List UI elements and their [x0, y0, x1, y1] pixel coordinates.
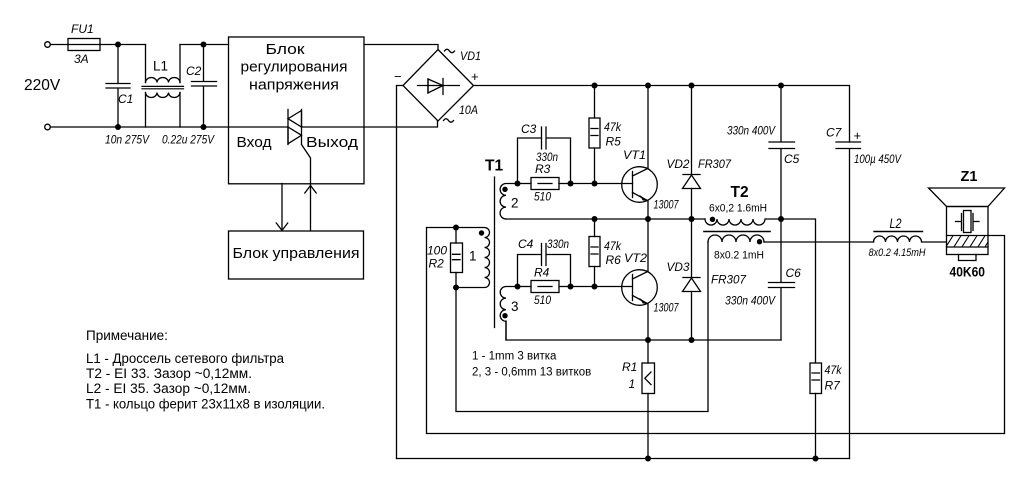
label 3A [74, 52, 89, 66]
label 330n (C4) [547, 237, 569, 251]
svg-text:Выход: Выход [306, 134, 358, 151]
svg-text:C5: C5 [784, 152, 800, 166]
resistor R2 [451, 228, 463, 288]
label VD2 [667, 157, 690, 171]
label 47k R7 [825, 363, 843, 393]
T1 core [494, 177, 496, 328]
note L1 [86, 351, 284, 366]
node C3-R3 left [515, 181, 521, 187]
speaker Z1 body [947, 207, 989, 255]
svg-text:регулирования: регулирования [241, 59, 348, 76]
note T1 [86, 397, 325, 412]
diode VD2 [683, 86, 701, 220]
label 220V [24, 77, 61, 94]
svg-text:L1 - Дроссель сетевого фильтра: L1 - Дроссель сетевого фильтра [86, 351, 284, 366]
svg-text:220V: 220V [24, 77, 61, 94]
svg-text:13007: 13007 [654, 200, 679, 212]
svg-text:8x0.2 4.15mH: 8x0.2 4.15mH [869, 247, 926, 259]
wire T2 secondary right to L2 [764, 241, 874, 243]
svg-text:C4: C4 [518, 237, 534, 251]
transistor VT2 [622, 219, 658, 340]
resistor R5 [589, 86, 600, 184]
svg-text:T2: T2 [731, 184, 749, 201]
svg-text:C1: C1 [118, 92, 133, 106]
label C3 [521, 122, 537, 136]
label R1 [622, 360, 637, 374]
svg-text:FR307: FR307 [698, 157, 732, 171]
svg-text:10n 275V: 10n 275V [105, 133, 150, 147]
node C4-R4 right [568, 284, 574, 290]
phase dot winding 1 [479, 230, 484, 235]
resistor R6 [589, 219, 600, 287]
wire bottom AC rail [50, 126, 228, 128]
node VD2 anode midpoint [689, 216, 695, 222]
svg-text:330n: 330n [547, 237, 569, 251]
label 510 (R4) [534, 293, 551, 307]
note T2 [86, 366, 252, 381]
svg-text:2: 2 [511, 196, 519, 211]
label 47k R6 [604, 239, 622, 267]
svg-text:40K60: 40K60 [950, 264, 986, 280]
svg-text:VD1: VD1 [460, 49, 481, 63]
svg-text:47k: 47k [604, 239, 622, 253]
node C1 top [115, 42, 121, 48]
label 8x0.2 1mH [714, 250, 764, 262]
label C5 [784, 152, 800, 166]
label T2 [731, 184, 749, 201]
label Z1 [961, 169, 978, 185]
svg-text:T1: T1 [485, 158, 503, 175]
label C7 [826, 126, 843, 140]
T1 winding 1 [456, 228, 490, 288]
label 10A [459, 103, 478, 117]
wire top AC L1 to block [180, 44, 229, 46]
resistor R1 [642, 340, 655, 459]
svg-text:FU1: FU1 [71, 22, 94, 36]
wire R3 to VT1 base [571, 183, 633, 185]
svg-text:VD3: VD3 [667, 260, 690, 274]
node R6 top [592, 216, 598, 222]
svg-text:R7: R7 [825, 379, 842, 393]
T2 secondary winding [708, 235, 764, 242]
svg-text:R5: R5 [606, 135, 622, 149]
resistor R7 [810, 363, 822, 459]
svg-text:L2: L2 [890, 216, 902, 231]
node R5 top [592, 83, 598, 89]
terminal tab of Z1 [959, 255, 977, 261]
svg-text:510: 510 [534, 190, 551, 204]
capacitor C4 branch [518, 244, 571, 287]
wire C5 bottom to R7 top [781, 219, 816, 363]
svg-text:330n 400V: 330n 400V [725, 294, 776, 308]
label FU1 [71, 22, 94, 36]
label 330n (C3) [536, 150, 558, 164]
label VT2 [624, 251, 647, 265]
svg-text:R6: R6 [606, 253, 622, 267]
svg-text:Z1: Z1 [961, 169, 978, 185]
capacitor C2 [192, 45, 217, 128]
svg-text:напряжения: напряжения [249, 77, 339, 94]
label 0.22u 275V [162, 133, 215, 147]
svg-text:C6: C6 [786, 266, 802, 280]
label 1 (winding) [469, 249, 477, 264]
phase dot T2 secondary [757, 239, 762, 244]
capacitor C7 [836, 142, 861, 459]
triac VS1 inside block [288, 110, 302, 145]
phase dot winding 2 [502, 187, 507, 192]
svg-text:3A: 3A [74, 52, 89, 66]
svg-text:10A: 10A [459, 103, 478, 117]
label 10n 275V [105, 133, 150, 147]
wire input to triac [229, 126, 289, 128]
svg-text:47k: 47k [825, 363, 843, 377]
wire T2 secondary left down to feedback loop [456, 242, 708, 412]
label C2 [186, 64, 202, 78]
label 100 R2 [427, 244, 447, 271]
label 330n 400V (C5) [727, 124, 776, 138]
label + (C7) [854, 128, 862, 143]
svg-text:Вход: Вход [237, 134, 272, 151]
label 3 [511, 299, 519, 314]
label ~ top of bridge [445, 49, 455, 53]
wire triac output to bridge AC2 [302, 121, 438, 127]
capacitor C3 branch [518, 127, 571, 184]
node winding1 top [453, 225, 459, 231]
label R4 [534, 266, 550, 280]
wire bridge minus down to negative bus [397, 86, 404, 459]
svg-text:C3: C3 [521, 122, 537, 136]
piezo element inside Z1 [956, 211, 980, 233]
svg-text:8x0.2 1mH: 8x0.2 1mH [714, 250, 764, 262]
node VT1 emitter / VT2 collector [645, 216, 651, 222]
svg-text:R4: R4 [534, 266, 550, 280]
svg-text:VD2: VD2 [667, 157, 690, 171]
svg-text:Блок: Блок [266, 41, 305, 58]
wire negative bus [397, 458, 850, 460]
svg-text:R3: R3 [535, 162, 551, 176]
svg-text:6x0,2 1.6mH: 6x0,2 1.6mH [709, 203, 767, 215]
svg-text:C2: C2 [186, 64, 202, 78]
node C4-R4 left [515, 284, 521, 290]
wire positive rail [474, 86, 850, 143]
resistor R3 [518, 178, 571, 190]
svg-text:L2 - EI 35. Зазор ~0,12мм.: L2 - EI 35. Зазор ~0,12мм. [86, 381, 251, 396]
node R1 bottom [645, 456, 651, 462]
label L2 [890, 216, 902, 231]
note 2, 3 - 0,6mm 13 витков [472, 367, 591, 379]
inductor L1 (common-mode choke) [142, 45, 184, 128]
node R5 bottom VT1 base [592, 181, 598, 187]
input terminal bottom [45, 124, 51, 130]
label FR307 (VD2) [698, 157, 732, 171]
svg-text:R2: R2 [429, 257, 445, 271]
inductor L2 [874, 232, 947, 243]
svg-text:Т1 - кольцо ферит 23х11х8 в из: Т1 - кольцо ферит 23х11х8 в изоляции. [86, 397, 325, 412]
wire R4 to VT2 base [571, 286, 633, 288]
label C1 [118, 92, 133, 106]
label ~ bottom of bridge [444, 119, 454, 123]
phase dot T2 primary [710, 217, 715, 222]
T2 primary winding [705, 219, 781, 225]
label FR307 (VD3) [711, 273, 747, 287]
node VD3 bottom [689, 337, 695, 343]
phase dot winding 3 [502, 313, 507, 318]
svg-text:VT1: VT1 [623, 148, 646, 162]
label 13007 (VT1) [654, 200, 679, 212]
svg-text:+: + [854, 128, 862, 143]
bridge rectifier VD1 [403, 50, 474, 122]
label 40K60 [950, 264, 986, 280]
block U1 voltage regulation (Блок регулирования напряжения) [229, 37, 365, 184]
node C1 bottom [115, 124, 121, 130]
capacitor C1 [106, 45, 130, 128]
label VT1 [623, 148, 646, 162]
svg-text:510: 510 [534, 293, 551, 307]
label 1 (R1) [629, 377, 636, 391]
svg-text:330n 400V: 330n 400V [727, 124, 776, 138]
svg-text:13007: 13007 [654, 303, 679, 315]
svg-text:3: 3 [511, 299, 519, 314]
svg-text:+: + [471, 69, 479, 84]
node winding1 bottom [453, 285, 459, 291]
node C3-R3 right [568, 181, 574, 187]
diode VD3 [683, 219, 701, 340]
wire mid rail (half-bridge midpoint) [506, 218, 705, 220]
control line block to block with down arrow [276, 184, 287, 231]
label 2 [511, 196, 519, 211]
label C6 [786, 266, 802, 280]
label minus [394, 69, 402, 84]
note 1 - 1mm 3 витка [472, 351, 557, 363]
capacitor C6 [769, 219, 795, 340]
fuse FU1 [68, 39, 100, 51]
svg-text:47k: 47k [604, 120, 622, 134]
label 6x0,2 1.6mH [709, 203, 767, 215]
node R6 bottom VT2 base [592, 284, 598, 290]
T1 winding 3 [500, 287, 517, 341]
node C2 bottom [201, 124, 207, 130]
svg-text:Блок управления: Блок управления [233, 245, 360, 262]
svg-text:L1: L1 [153, 59, 168, 74]
svg-text:100: 100 [427, 244, 447, 258]
svg-text:Т2 - EI 33. Зазор ~0,12мм.: Т2 - EI 33. Зазор ~0,12мм. [86, 366, 252, 381]
node VT1 collector rail [645, 83, 651, 89]
wire block top to bridge AC1 [364, 45, 438, 50]
label 8x0.2 4.15mH [869, 247, 926, 259]
svg-text:FR307: FR307 [711, 273, 747, 287]
label VD1 [460, 49, 481, 63]
svg-text:100µ 450V: 100µ 450V [854, 152, 902, 166]
wire top AC from terminal to fuse [50, 44, 68, 46]
notes header [86, 328, 168, 343]
label R3 [535, 162, 551, 176]
note L2 [86, 381, 251, 396]
wire top AC fuse to L1 [100, 44, 146, 46]
wire VT2 emitter rail [506, 321, 781, 340]
label T1 [485, 158, 503, 175]
speaker Z1 horn [929, 188, 1005, 207]
svg-text:0.22u 275V: 0.22u 275V [162, 133, 215, 147]
label 330n 400V (C6) [725, 294, 776, 308]
triac gate wire [302, 145, 311, 231]
node VT2 emitter bottom [645, 337, 651, 343]
label C4 [518, 237, 534, 251]
svg-text:1 - 1mm 3 витка: 1 - 1mm 3 витка [472, 351, 557, 363]
T1 winding 2 [500, 184, 517, 220]
node VD2 top [689, 83, 695, 89]
block U2 control (Блок управления) [229, 231, 364, 279]
svg-text:R1: R1 [622, 360, 637, 374]
label 510 (R3) [534, 190, 551, 204]
arrow into triac gate [305, 186, 316, 194]
label VD3 [667, 260, 690, 274]
node C5 bottom T2 primary right [778, 216, 784, 222]
svg-text:2, 3 - 0,6mm 13 витков: 2, 3 - 0,6mm 13 витков [472, 367, 591, 379]
label 13007 (VT2) [654, 303, 679, 315]
svg-text:1: 1 [629, 377, 636, 391]
transistor VT1 [622, 86, 658, 220]
wire lamp return loop [427, 228, 1005, 434]
label plus [471, 69, 479, 84]
label L1 [153, 59, 168, 74]
node C5 top [778, 83, 784, 89]
label 47k R5 [604, 120, 622, 149]
svg-text:C7: C7 [826, 126, 843, 140]
label 100u 450V [854, 152, 902, 166]
T2 core [704, 231, 770, 233]
svg-text:1: 1 [469, 249, 477, 264]
input terminal top [45, 42, 51, 48]
resistor R4 [518, 281, 571, 293]
svg-text:VT2: VT2 [624, 251, 647, 265]
hatched band of Z1 [947, 236, 989, 248]
node C2 top [201, 42, 207, 48]
node R7 bottom [813, 456, 819, 462]
svg-text:Примечание:: Примечание: [86, 328, 168, 343]
svg-text:−: − [394, 69, 402, 84]
capacitor C5 [769, 86, 795, 220]
